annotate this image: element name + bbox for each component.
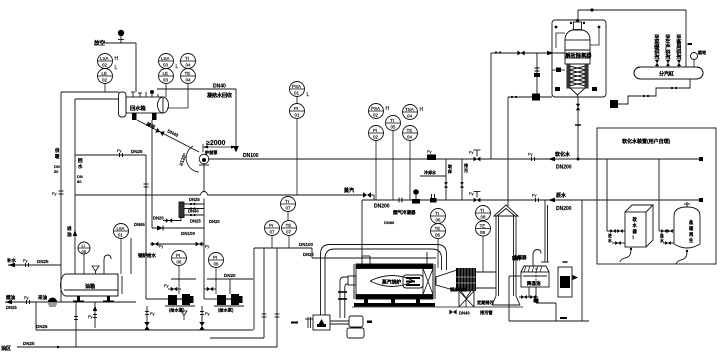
burner box xyxy=(305,315,330,330)
svg-text:供: 供 xyxy=(54,147,60,154)
control cabinet xyxy=(558,267,572,297)
valve on diagonal xyxy=(155,128,165,137)
svg-text:TI: TI xyxy=(390,118,394,123)
svg-text:TI: TI xyxy=(480,208,484,213)
svg-text:(给水泵): (给水泵) xyxy=(218,307,234,314)
svg-text:DN40: DN40 xyxy=(459,311,470,316)
svg-text:锅炉给水: 锅炉给水 xyxy=(137,252,156,259)
svg-text:05: 05 xyxy=(82,249,87,254)
svg-text:DN20: DN20 xyxy=(224,273,236,278)
svg-text:暖: 暖 xyxy=(55,153,60,160)
svg-text:L: L xyxy=(307,92,310,98)
oil ground line y302 xyxy=(5,301,136,303)
svg-text:DN25: DN25 xyxy=(36,324,48,329)
instrument TI-07 xyxy=(281,197,296,221)
svg-text:02: 02 xyxy=(102,78,108,83)
svg-text:80: 80 xyxy=(77,179,82,184)
svg-text:LE: LE xyxy=(163,71,169,76)
svg-text:04: 04 xyxy=(186,78,192,83)
pump drains xyxy=(147,306,202,330)
svg-text:污: 污 xyxy=(464,167,468,173)
deaerator enclosure xyxy=(552,20,606,97)
svg-text:DN25: DN25 xyxy=(6,305,17,310)
pump G2 feed pump xyxy=(214,294,244,314)
instrument LE-03 xyxy=(159,69,174,98)
instrument PSA-02 xyxy=(369,104,390,119)
drops from water lines xyxy=(607,159,659,231)
svg-text:排污管: 排污管 xyxy=(480,309,493,316)
ground line xyxy=(352,306,523,308)
instrument TE-08 xyxy=(476,221,491,272)
svg-text:TI: TI xyxy=(285,199,289,204)
instrument LE-02 xyxy=(98,69,113,93)
gate valve T y200 xyxy=(474,192,481,198)
svg-text:汽: 汽 xyxy=(654,53,660,61)
reducing branch xyxy=(508,53,552,206)
supply line y265 xyxy=(8,264,61,266)
header drain piping xyxy=(618,79,690,104)
instrument TI-08 xyxy=(476,206,491,221)
junction deaerator drain xyxy=(577,158,580,161)
svg-text:水: 水 xyxy=(659,238,664,243)
instrument TE-04 xyxy=(167,69,196,109)
svg-text:DN200: DN200 xyxy=(556,206,572,212)
instrument TE-07 xyxy=(282,221,297,249)
pump G1 discharge valves xyxy=(168,288,181,290)
submerged pump symbol xyxy=(48,298,57,303)
svg-text:LI: LI xyxy=(82,243,85,248)
economizer cone xyxy=(436,270,457,291)
svg-text:水: 水 xyxy=(607,238,612,243)
svg-text:软: 软 xyxy=(633,216,638,223)
wire vent drop xyxy=(135,43,137,92)
SEC1 top-left condensate tank xyxy=(104,30,136,92)
svg-text:DN40: DN40 xyxy=(213,84,226,90)
svg-text:软化水装置(用户自理): 软化水装置(用户自理) xyxy=(622,138,671,145)
raw water main DN200 y200 xyxy=(362,199,701,201)
boiler base xyxy=(364,299,368,303)
relief valve on y200 xyxy=(415,195,417,200)
svg-text:Fy: Fy xyxy=(159,245,163,249)
svg-text:Fy: Fy xyxy=(52,191,56,196)
svg-text:06: 06 xyxy=(214,262,220,267)
svg-text:盐: 盐 xyxy=(660,233,664,238)
svg-text:DN200: DN200 xyxy=(374,204,390,210)
svg-text:TE: TE xyxy=(435,226,441,231)
svg-text:盐: 盐 xyxy=(689,219,694,226)
svg-text:DN100: DN100 xyxy=(299,242,314,247)
instrument PI-01 xyxy=(290,82,310,99)
svg-text:汽: 汽 xyxy=(676,53,682,61)
svg-text:锅炉排污: 锅炉排污 xyxy=(449,286,468,293)
svg-text:LSA: LSA xyxy=(100,56,109,61)
feedwater suction line y155 xyxy=(75,155,168,299)
svg-text:50: 50 xyxy=(54,169,59,174)
softener unit S1 xyxy=(625,205,653,247)
svg-text:样: 样 xyxy=(448,168,452,174)
instrument TE-04b xyxy=(403,126,418,201)
svg-text:水: 水 xyxy=(633,222,638,229)
economizer E1 xyxy=(456,268,476,291)
svg-text:Fy: Fy xyxy=(117,148,121,153)
svg-text:Fy: Fy xyxy=(469,150,473,155)
svg-text:03: 03 xyxy=(163,63,169,68)
svg-text:就地: 就地 xyxy=(698,49,706,55)
svg-text:08: 08 xyxy=(480,230,486,235)
svg-text:油: 油 xyxy=(67,231,72,238)
svg-text:DN200: DN200 xyxy=(556,165,572,171)
heating line y195 with hops xyxy=(75,192,374,201)
svg-text:降温池: 降温池 xyxy=(527,280,541,287)
svg-text:01: 01 xyxy=(294,91,300,96)
valve block y200 xyxy=(430,198,437,203)
svg-text:H: H xyxy=(115,56,119,62)
sample cooler coil xyxy=(163,202,204,221)
chimney xyxy=(492,205,520,305)
svg-text:TE: TE xyxy=(286,223,292,228)
deaerator drain to line xyxy=(577,97,579,159)
svg-text:来油: 来油 xyxy=(37,294,47,301)
deaerator vessel U1 xyxy=(565,22,590,97)
vent cap xyxy=(118,30,124,36)
vent line xyxy=(104,42,136,44)
svg-text:进: 进 xyxy=(608,233,612,238)
svg-text:Fy: Fy xyxy=(532,193,536,198)
steam top line to header xyxy=(578,10,686,67)
svg-text:补水: 补水 xyxy=(7,257,16,264)
tank drain riser x149 xyxy=(151,120,153,228)
svg-text:PSA: PSA xyxy=(371,106,380,111)
instrument LSA-03 xyxy=(159,54,179,71)
svg-text:软化水: 软化水 xyxy=(555,151,571,158)
svg-text:汽: 汽 xyxy=(665,53,671,61)
svg-text:取样: 取样 xyxy=(512,255,521,262)
downcomer x204 from pump xyxy=(204,164,217,299)
svg-text:01: 01 xyxy=(295,113,301,118)
svg-text:器: 器 xyxy=(632,228,638,235)
svg-text:DN80: DN80 xyxy=(384,220,395,225)
blowdown cooling tank xyxy=(521,266,549,287)
rear tube sheet X panel xyxy=(423,269,433,295)
svg-text:再: 再 xyxy=(689,231,694,238)
svg-text:冷却水: 冷却水 xyxy=(424,169,437,175)
svg-text:DN25: DN25 xyxy=(189,197,200,202)
blowdown diagonal to pump xyxy=(137,120,199,152)
softened water main DN200 y159 xyxy=(208,158,701,160)
svg-text:烟气冷凝器: 烟气冷凝器 xyxy=(393,209,416,216)
instrument PI-07 xyxy=(265,221,280,249)
instrument TI-06 xyxy=(431,209,446,224)
svg-text:油箱: 油箱 xyxy=(85,283,95,290)
svg-text:燃油: 燃油 xyxy=(6,294,15,301)
svg-text:H: H xyxy=(386,106,390,112)
svg-text:PSA: PSA xyxy=(292,84,301,89)
svg-text:水: 水 xyxy=(78,163,83,170)
steam header V1 xyxy=(634,67,703,79)
svg-text:Fy: Fy xyxy=(205,245,209,249)
steam trap xyxy=(610,100,618,108)
riser x61 heating supply xyxy=(60,92,62,302)
svg-text:DN25: DN25 xyxy=(190,219,201,224)
instrument TI-05 xyxy=(386,116,401,201)
breather funnel xyxy=(92,266,99,271)
cross line y230 with check valve xyxy=(152,227,204,229)
svg-text:TE: TE xyxy=(185,71,191,76)
Fy marks near rect entries xyxy=(532,157,535,161)
condensate recovery line DN40 xyxy=(157,89,236,146)
svg-text:原水: 原水 xyxy=(556,192,567,199)
instrument TSA-04 xyxy=(403,105,424,120)
instrument TI-04 xyxy=(181,54,196,69)
oil return stub xyxy=(130,238,132,274)
svg-text:TI: TI xyxy=(435,211,439,216)
tank outlet risers xyxy=(36,302,95,347)
svg-text:06: 06 xyxy=(435,233,441,238)
instrument TE-06 xyxy=(431,224,446,269)
svg-text:Fy: Fy xyxy=(23,258,27,263)
svg-text:TE: TE xyxy=(407,128,413,133)
svg-text:DN100: DN100 xyxy=(243,153,259,159)
svg-text:定期排污: 定期排污 xyxy=(476,299,495,306)
svg-text:TSA: TSA xyxy=(405,107,414,112)
salt tank valves xyxy=(659,230,674,232)
burner elbow pipe xyxy=(340,276,356,318)
steam riser to deaerator xyxy=(491,53,565,159)
svg-text:≥2000: ≥2000 xyxy=(206,140,226,147)
header outlet labels xyxy=(653,33,682,61)
Fy flange on x61 xyxy=(59,191,64,194)
combustion air loop pipes xyxy=(321,245,447,316)
svg-text:L: L xyxy=(115,65,118,71)
svg-text:Fy: Fy xyxy=(528,152,532,157)
svg-text:DN25: DN25 xyxy=(131,149,143,154)
svg-text:回: 回 xyxy=(78,157,83,164)
svg-text:解析除氧器: 解析除氧器 xyxy=(566,51,593,59)
svg-text:进: 进 xyxy=(67,225,72,232)
gate valve T y159 xyxy=(474,150,481,157)
svg-text:Fy: Fy xyxy=(427,149,431,154)
svg-text:07: 07 xyxy=(286,230,292,235)
tank legs xyxy=(77,296,80,302)
svg-text:Fy: Fy xyxy=(164,283,168,288)
deaerator nozzles xyxy=(552,28,599,70)
economizer hopper drain xyxy=(461,291,471,298)
flue duct to stack xyxy=(476,272,496,288)
blowdown piping xyxy=(509,200,589,321)
feedwater header y248 xyxy=(254,248,436,347)
svg-text:07: 07 xyxy=(270,230,276,235)
svg-text:LSA: LSA xyxy=(161,56,170,61)
svg-text:L: L xyxy=(176,64,179,70)
gas train fan xyxy=(330,316,364,338)
svg-text:蒸汽: 蒸汽 xyxy=(344,187,354,194)
salt tank S2 xyxy=(674,202,700,248)
svg-text:Fy: Fy xyxy=(469,191,473,196)
sample hook xyxy=(533,250,541,267)
svg-text:DN25: DN25 xyxy=(23,341,35,346)
equipment drains xyxy=(620,250,631,262)
svg-text:02: 02 xyxy=(102,63,108,68)
pump G2 discharge valves xyxy=(204,288,216,290)
pump G1 feed pump xyxy=(165,294,195,314)
instrument PI-06b xyxy=(209,253,224,295)
svg-text:Fy: Fy xyxy=(88,314,92,319)
svg-text:06: 06 xyxy=(177,260,183,265)
svg-text:PI: PI xyxy=(213,255,217,260)
svg-text:DN20: DN20 xyxy=(209,219,220,224)
pump P0 furnace front pump xyxy=(199,154,209,165)
economizer support xyxy=(459,291,474,307)
svg-text:07: 07 xyxy=(286,206,292,211)
svg-text:LSA: LSA xyxy=(117,226,125,231)
svg-text:08: 08 xyxy=(481,215,487,220)
svg-text:PI: PI xyxy=(294,106,298,111)
flow element on y159 xyxy=(427,155,436,161)
instrument LSA-01 xyxy=(114,224,129,275)
svg-text:放空: 放空 xyxy=(93,39,106,47)
svg-text:分汽缸: 分汽缸 xyxy=(659,71,674,78)
tank T1 condensate tank xyxy=(119,90,169,117)
boiler B1 xyxy=(354,264,435,299)
svg-text:DN100: DN100 xyxy=(181,231,196,236)
dimension >=2000 xyxy=(203,144,236,152)
svg-text:DN40: DN40 xyxy=(188,209,199,214)
svg-text:06: 06 xyxy=(436,218,442,223)
instrument PI-06a xyxy=(172,251,187,295)
svg-text:DN25: DN25 xyxy=(37,259,49,264)
svg-text:Fy: Fy xyxy=(150,311,154,316)
steam riser x362 xyxy=(362,200,427,264)
instrument LSA-02 xyxy=(98,54,119,72)
svg-text:LE: LE xyxy=(102,71,108,76)
svg-text:05: 05 xyxy=(391,125,397,130)
svg-text:Fy: Fy xyxy=(205,311,209,316)
pressure gauge PI xyxy=(691,53,698,60)
svg-text:TI: TI xyxy=(185,56,189,61)
svg-text:DN65: DN65 xyxy=(134,222,145,227)
svg-text:PI: PI xyxy=(176,253,180,258)
svg-text:H: H xyxy=(420,107,424,113)
arrow on x75 xyxy=(73,230,77,236)
svg-text:凝结水回收: 凝结水回收 xyxy=(207,92,232,99)
svg-text:箱: 箱 xyxy=(688,225,694,232)
svg-text:PI: PI xyxy=(373,128,377,133)
svg-text:04: 04 xyxy=(407,114,413,119)
svg-text:油区: 油区 xyxy=(1,345,11,352)
svg-text:DN20: DN20 xyxy=(303,252,314,257)
svg-text:02: 02 xyxy=(373,113,379,118)
svg-text:04: 04 xyxy=(407,135,413,140)
instrument PI-02 xyxy=(369,126,384,201)
svg-text:02: 02 xyxy=(373,135,379,140)
sample drop x446 xyxy=(420,159,462,200)
svg-text:DN20: DN20 xyxy=(153,216,164,221)
svg-text:TE: TE xyxy=(480,224,486,229)
oil tank xyxy=(61,274,123,296)
tank inlet wires from left xyxy=(61,92,119,302)
bottom manifold lines xyxy=(17,330,277,347)
svg-text:03: 03 xyxy=(163,78,169,83)
tank bottom nozzle valves xyxy=(132,113,157,120)
flow arrows into softener lines xyxy=(548,157,555,161)
header outlet stubs xyxy=(657,56,679,67)
cross line y244 DN100 xyxy=(150,243,204,245)
svg-text:(给水泵): (给水泵) xyxy=(169,307,185,314)
svg-text:04: 04 xyxy=(186,63,192,68)
riser x75 heating return xyxy=(74,99,76,274)
filler hook pipe xyxy=(104,255,111,274)
svg-text:PI: PI xyxy=(269,223,273,228)
softener enclosure xyxy=(597,128,716,264)
svg-text:炉前泵: 炉前泵 xyxy=(205,149,218,156)
softener inlet valves xyxy=(607,230,625,232)
svg-text:生: 生 xyxy=(689,237,694,244)
svg-text:Fy: Fy xyxy=(24,295,28,300)
angle arc >=120 xyxy=(186,146,199,172)
coil inside xyxy=(569,66,586,86)
svg-text:蒸汽锅炉: 蒸汽锅炉 xyxy=(381,279,401,286)
svg-text:01: 01 xyxy=(118,233,123,238)
svg-text:Ⅰ: Ⅰ xyxy=(633,235,634,240)
instrument LI oil level xyxy=(78,242,90,274)
svg-text:回水箱: 回水箱 xyxy=(130,104,146,112)
